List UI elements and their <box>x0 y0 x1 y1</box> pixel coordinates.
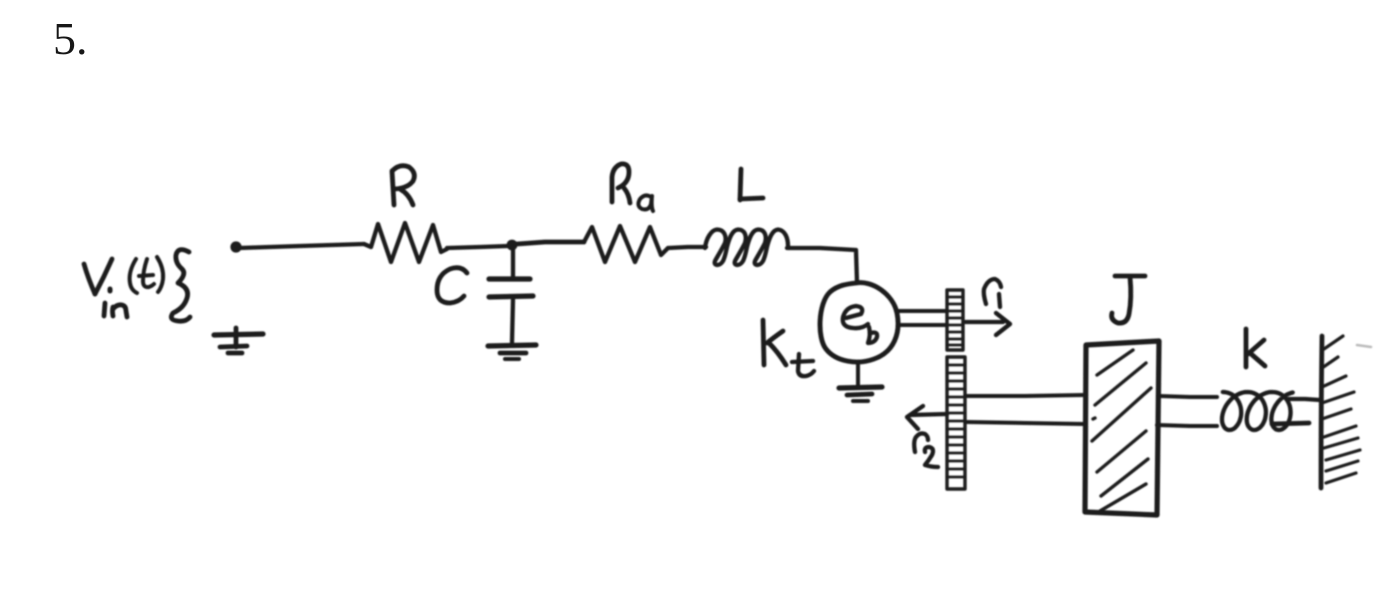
resistor R <box>364 223 447 262</box>
spring k <box>1222 392 1293 430</box>
capacitor C <box>489 250 533 343</box>
shaft J to spring <box>1157 396 1217 426</box>
arrow r2 direction <box>907 406 947 429</box>
inertia J block <box>1085 341 1159 515</box>
label r1 <box>984 279 1001 307</box>
motor shaft to gear r1 <box>898 311 946 325</box>
label Vin(t) <box>84 257 163 317</box>
wire Ra to L <box>668 247 706 248</box>
resistor Ra <box>584 226 668 262</box>
node B junction R/C/Ra <box>507 240 518 251</box>
arrow r1 direction <box>965 313 1010 335</box>
problem number 5. <box>53 12 88 65</box>
ground G1 at source <box>214 328 263 353</box>
ground G2 at capacitor <box>488 345 536 359</box>
label J <box>1112 276 1145 323</box>
label R <box>392 166 414 205</box>
wire L to motor <box>787 248 857 283</box>
label eb <box>843 306 877 343</box>
wire spring to wall <box>1272 399 1320 424</box>
motor back-emf source eb <box>820 283 898 362</box>
wire R to node B <box>447 246 508 248</box>
wall fixed support <box>1321 336 1371 488</box>
label r2 <box>914 433 938 467</box>
source squiggle brace <box>171 250 190 322</box>
wire input node to resistor R <box>239 244 364 248</box>
gear r2 <box>947 357 965 489</box>
label C <box>437 268 467 303</box>
shaft gear r2 to inertia J <box>966 395 1084 424</box>
label Kt <box>763 320 814 376</box>
label Ra <box>612 164 653 211</box>
label k <box>1246 329 1265 367</box>
gear r1 <box>947 290 963 350</box>
wire node B to Ra <box>517 242 584 244</box>
label L <box>740 169 763 200</box>
ground G3 at motor <box>839 362 882 401</box>
inductor L <box>705 230 789 265</box>
node A input terminal <box>230 241 241 252</box>
